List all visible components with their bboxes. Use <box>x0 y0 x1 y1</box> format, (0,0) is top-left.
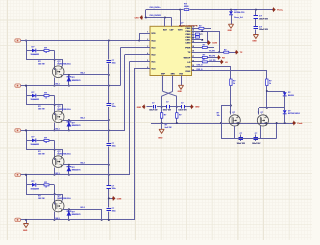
cell 4: wire to diode <box>26 184 32 186</box>
IC pin CIN1 <box>192 39 195 41</box>
zener diode D2 <box>68 75 70 86</box>
svg-text:100nF 50V: 100nF 50V <box>149 110 158 112</box>
cell 2: lower path wire <box>26 104 63 106</box>
svg-text:GND: GND <box>252 40 257 42</box>
cell 3: gate vertical wire <box>54 140 56 160</box>
svg-text:R?: R? <box>165 125 168 127</box>
IC pin BAT <box>164 23 166 26</box>
wire gate 2 down <box>258 108 260 115</box>
wire row 1 to pin VC5 corner <box>139 33 141 41</box>
svg-text:100 1W: 100 1W <box>38 109 45 111</box>
IC pin VC4 <box>147 40 150 42</box>
capacitor C (CIN2) <box>195 36 199 38</box>
wire CIN5 row <box>195 28 199 30</box>
svg-text:DSG: DSG <box>186 71 191 73</box>
cell 3: source node wire <box>63 164 109 166</box>
port B4+ (top left) <box>15 39 21 42</box>
cell 3: lower path wire <box>26 149 63 151</box>
wire stair row 5 to IC <box>134 69 136 220</box>
cell 1: drain drop wire <box>62 60 64 67</box>
svg-text:CIN3: CIN3 <box>185 34 191 36</box>
svg-text:LD_PD: LD_PD <box>210 60 217 62</box>
zener diode D8 <box>68 209 70 220</box>
diode D7 <box>32 183 36 187</box>
IC pin VSS <box>181 76 183 79</box>
port WKUP <box>218 55 221 60</box>
svg-text:RX_PD: RX_PD <box>209 56 216 58</box>
svg-text:C?: C? <box>166 102 169 104</box>
capacitor C (gate-source 2) <box>255 134 257 137</box>
IC pin VC1 <box>147 61 150 63</box>
resistor R (PWR) <box>202 46 207 48</box>
wire LD row <box>195 61 203 63</box>
wire stair row 3 to IC <box>124 55 126 131</box>
wire CHG feed <box>195 66 231 68</box>
IC pin PWR <box>192 47 195 49</box>
svg-text:1k: 1k <box>45 187 48 189</box>
capacitor C4 (bus filter) <box>107 185 111 187</box>
cell 2: gate vertical wire <box>54 96 56 116</box>
resistor R5 <box>44 139 49 141</box>
wire TX row <box>195 52 224 54</box>
cell 4: drain drop wire <box>62 194 64 201</box>
svg-text:CHG_G: CHG_G <box>197 65 204 67</box>
IC U1 BQ76 battery monitor <box>150 26 192 75</box>
IC pin CIN4 <box>192 31 195 33</box>
IC pin SRN <box>172 76 174 79</box>
wire CIN4 row <box>195 31 219 33</box>
cell 2: source node wire <box>63 120 109 122</box>
wire CIN1 row <box>195 39 202 41</box>
cell 3: wire resistor to gate line <box>49 140 55 142</box>
cell 4: source node drop to row 5 <box>101 209 103 220</box>
svg-text:100n: 100n <box>112 188 116 190</box>
wire FET2 leg to caps rail <box>260 126 262 139</box>
wire PWR row <box>195 47 203 49</box>
wire bottom network row <box>147 106 153 108</box>
port LD <box>221 59 224 64</box>
svg-text:1k: 1k <box>45 97 48 99</box>
svg-text:COM: COM <box>212 43 217 45</box>
cell 4: lower path wire <box>26 194 63 196</box>
svg-text:D?: D? <box>72 167 76 169</box>
zener diode D6 <box>68 165 70 175</box>
wire CHG corner down / gate 1 drive <box>230 66 232 79</box>
svg-text:GND: GND <box>158 138 163 140</box>
svg-text:100n: 100n <box>112 146 116 148</box>
cell 4: wire vertical from tap <box>26 175 28 194</box>
capacitor C (pack+ filter 2) <box>255 19 257 26</box>
svg-text:1k: 1k <box>269 83 271 85</box>
cell 2: wire vertical from tap <box>26 86 28 105</box>
IC pin V3P3 <box>180 23 182 26</box>
power ground GND (VSS) <box>178 85 183 89</box>
wire V3P3 pin drop <box>180 10 182 24</box>
svg-text:100 1W: 100 1W <box>38 153 45 155</box>
IC pin VC5 <box>147 33 150 35</box>
svg-text:R?: R? <box>38 151 41 153</box>
port PACK+ <box>273 7 276 12</box>
cell 1: source node wire <box>63 74 109 76</box>
port COM (right of IC) <box>208 40 211 46</box>
wire BAT pin drop <box>164 18 166 24</box>
capacitor C3 (bus filter) <box>107 143 111 145</box>
port TX <box>236 50 239 55</box>
cell 1: gate vertical wire <box>54 51 56 71</box>
wire CIN4 drop to TX row <box>219 31 221 52</box>
resistor R3 <box>44 95 49 97</box>
svg-text:100n: 100n <box>112 63 116 65</box>
svg-text:BQ7PL536APAPR: BQ7PL536APAPR <box>179 24 198 27</box>
wire sense left vertical <box>161 96 163 123</box>
svg-text:CIN1: CIN1 <box>185 40 191 42</box>
svg-text:0R05: 0R05 <box>184 6 189 8</box>
mosfet Q1 <box>52 66 64 78</box>
wire CIN0 row <box>195 42 208 44</box>
svg-text:V3P3: V3P3 <box>178 30 183 32</box>
svg-text:R?: R? <box>179 114 182 116</box>
resistor R7 <box>44 184 49 186</box>
wire diode loop top <box>267 91 285 93</box>
capacitor C5 (bus filter) <box>107 208 111 210</box>
wire ground stub row 5 <box>26 220 28 224</box>
resistor R (gate 1) <box>230 79 232 86</box>
cell 3: source wire to next tap <box>54 167 56 175</box>
wire top rail PACK+ <box>146 9 183 11</box>
diode D5 <box>32 139 36 143</box>
wire stair row 4 to IC <box>129 62 131 175</box>
wire gate network left vertical <box>221 106 223 139</box>
svg-text:SRN: SRN <box>171 73 176 75</box>
cell 4: source node wire <box>63 209 102 211</box>
wire CIN0 vertical <box>207 31 209 43</box>
svg-text:1N4448W: 1N4448W <box>31 187 40 190</box>
wire row 2 <box>21 85 121 87</box>
wire gate 1 tap to left <box>221 105 231 107</box>
port Pack- <box>293 120 296 125</box>
svg-text:GND: GND <box>228 30 233 32</box>
svg-text:R?: R? <box>38 106 41 108</box>
resistor R (CIN5) <box>199 27 204 29</box>
cell 4: source wire to next tap <box>54 212 56 220</box>
IC pin CIN0 <box>192 42 195 44</box>
svg-text:WKUP: WKUP <box>184 57 191 59</box>
svg-text:DSG_G: DSG_G <box>197 69 204 71</box>
svg-text:Q?: Q? <box>232 112 235 114</box>
svg-text:Q?: Q? <box>58 106 62 108</box>
capacitor C1 (bus filter) <box>107 60 111 62</box>
IC pin TX <box>192 52 195 54</box>
wire stub to COM port <box>109 198 113 200</box>
svg-text:CIN0: CIN0 <box>185 43 191 45</box>
mosfet Q6 (charge) <box>257 115 268 126</box>
IC pin VC2 <box>147 54 150 56</box>
svg-text:100n: 100n <box>112 211 116 213</box>
resistor R (gate 2) <box>266 71 268 79</box>
svg-text:CIN2: CIN2 <box>185 37 191 39</box>
IC pin CAP <box>171 23 173 26</box>
mosfet Q4 <box>52 200 64 212</box>
wire row 4 <box>21 174 130 176</box>
svg-text:GND: GND <box>178 91 183 93</box>
IC pin CIN2 <box>192 37 195 39</box>
wire sense bus vertical <box>108 41 110 60</box>
capacitor C (sense mid) <box>166 105 168 109</box>
svg-text:CIN5: CIN5 <box>185 28 191 30</box>
cell 2: drain drop wire <box>62 105 64 112</box>
capacitor C (gate-source 1) <box>240 134 242 137</box>
wire sense right vertical <box>176 96 178 123</box>
cell 2: wire to diode <box>26 95 32 97</box>
svg-text:100 1W: 100 1W <box>38 198 45 200</box>
wire WKUP row <box>195 57 203 59</box>
svg-text:MM3Z9V1: MM3Z9V1 <box>72 170 81 172</box>
resistor R (WKUP) <box>202 56 207 58</box>
wire CAP pin drop <box>171 18 173 24</box>
diode D top (to GND) <box>231 10 233 12</box>
wire SRP drop <box>162 79 164 92</box>
wire stub IC pin VC5 <box>139 33 150 35</box>
cell 2: source wire to next tap <box>54 123 56 131</box>
resistor R (TX) <box>224 51 229 53</box>
wire row 3 <box>21 130 125 132</box>
wire BAT/CAP feed <box>144 17 171 19</box>
capacitor C2 (bus filter) <box>107 103 111 105</box>
svg-text:MM3Z9V1: MM3Z9V1 <box>72 214 81 216</box>
wire caps rail <box>221 138 277 140</box>
cell 4: gate vertical wire <box>54 185 56 205</box>
svg-text:CHG: CHG <box>185 66 190 68</box>
resistor R1 <box>44 50 49 52</box>
svg-text:GND: GND <box>195 107 200 109</box>
port COM <box>113 196 116 201</box>
wire SRN drop <box>172 79 174 92</box>
wire VSS to ground <box>181 79 183 86</box>
svg-text:100nF 50V: 100nF 50V <box>252 143 261 145</box>
wire SRP crossover <box>163 91 177 96</box>
svg-text:BZX84-C10: BZX84-C10 <box>234 11 244 14</box>
svg-text:Pack+: Pack+ <box>277 10 284 12</box>
zener diode D4 <box>68 120 70 130</box>
svg-text:COM: COM <box>117 198 122 200</box>
cell 3: wire vertical from tap <box>26 130 28 149</box>
svg-text:C?: C? <box>112 103 115 105</box>
svg-text:100nF 50V: 100nF 50V <box>178 110 187 112</box>
wire gate 1 drop <box>230 86 232 115</box>
svg-text:1k: 1k <box>45 142 48 144</box>
svg-text:GND: GND <box>137 107 142 109</box>
mosfet Q3 <box>52 156 64 168</box>
svg-text:CHG: CHG <box>135 18 140 20</box>
svg-text:TX: TX <box>240 52 243 54</box>
svg-text:100nF 50V: 100nF 50V <box>259 29 269 31</box>
cell 1: source wire to next tap <box>54 77 56 85</box>
svg-text:Pack-: Pack- <box>297 123 303 125</box>
power ground GND (bottom left) <box>23 224 28 228</box>
wire caps rail riser <box>276 123 278 139</box>
svg-text:D?: D? <box>288 110 291 112</box>
mosfet Q2 <box>52 111 64 123</box>
capacitor C (pack+ filter 1) <box>255 10 257 16</box>
svg-text:100n: 100n <box>112 106 116 108</box>
mosfet Q5 (discharge) <box>229 115 240 126</box>
cell 3: wire diode to resistor <box>36 140 44 142</box>
capacitor C (CIN3) <box>195 33 199 35</box>
svg-text:PWR: PWR <box>185 47 191 49</box>
svg-text:C?: C? <box>200 34 202 36</box>
resistor R (LD) <box>202 61 207 63</box>
power ground GND (sense rail) <box>161 123 163 129</box>
svg-text:1N4448W: 1N4448W <box>31 98 40 101</box>
IC pin CHG <box>192 66 195 68</box>
resistor R top inline <box>184 9 189 11</box>
svg-text:100nF 50V: 100nF 50V <box>259 18 269 20</box>
cell 4: wire diode to resistor <box>36 184 44 186</box>
IC pin SRP <box>162 76 164 79</box>
wire top rail corner to CHG wire <box>145 10 147 18</box>
port cell tap 1 <box>15 218 21 221</box>
diode D1 <box>32 49 36 53</box>
IC pin CIN3 <box>192 34 195 36</box>
svg-text:100nF 50V: 100nF 50V <box>163 110 172 112</box>
IC pin DSG <box>192 70 195 72</box>
resistor R (sense left) <box>160 113 162 119</box>
wire SRN crossover <box>162 91 173 96</box>
svg-text:1N4448W: 1N4448W <box>31 53 40 56</box>
wire sense rail / source rail to Pack- <box>151 123 294 125</box>
svg-text:CHG_PACKR: CHG_PACKR <box>150 14 162 17</box>
wire row 5 <box>21 219 135 221</box>
cell 1: wire diode to resistor <box>36 50 44 52</box>
diode D (gate bypass) <box>284 91 286 92</box>
port cell tap 4 <box>15 84 21 87</box>
IC pin WKUP <box>192 57 195 59</box>
svg-text:C?: C? <box>259 26 263 28</box>
svg-text:100nF 50V: 100nF 50V <box>237 143 246 145</box>
diode D3 <box>32 94 36 98</box>
svg-text:MM3Z9V1: MM3Z9V1 <box>72 125 81 127</box>
svg-text:GND: GND <box>23 230 28 232</box>
capacitor C (sense right) <box>181 105 183 109</box>
port cell tap 3 <box>15 129 21 132</box>
wire FET1 leg to caps rail <box>234 126 236 139</box>
capacitor C (sense left) <box>153 105 155 109</box>
svg-text:10k: 10k <box>217 115 220 117</box>
IC pin VC3 <box>147 47 150 49</box>
resistor R (sense right) <box>176 113 178 119</box>
cell 1: wire to diode <box>26 50 32 52</box>
zener diode D (gate protect) <box>284 108 286 110</box>
svg-text:RX: RX <box>222 57 225 59</box>
cell 2: wire diode to resistor <box>36 95 44 97</box>
wire row 1 (net VC5) <box>21 40 150 42</box>
wire stair row 2 to IC <box>120 48 122 86</box>
cell 1: wire vertical from tap <box>26 41 28 60</box>
svg-text:Q?: Q? <box>58 151 62 153</box>
wire gate 2 bus <box>259 107 285 109</box>
svg-text:LD: LD <box>187 62 190 64</box>
cell 4: wire resistor to gate line <box>49 184 55 186</box>
wire gate 2 drop <box>266 86 268 108</box>
cell 1: lower path wire <box>26 59 63 61</box>
cell 1: wire resistor to gate line <box>49 50 55 52</box>
svg-text:1k: 1k <box>45 52 48 54</box>
power ground GND (pack+ filter) <box>253 35 258 39</box>
IC pin CIN5 <box>192 28 195 30</box>
svg-text:100 1W: 100 1W <box>38 64 45 66</box>
cell 2: wire resistor to gate line <box>49 95 55 97</box>
svg-text:BZT52C-B9V1: BZT52C-B9V1 <box>288 113 300 115</box>
power ground GND (top diode) <box>228 24 233 28</box>
svg-text:1N4448W: 1N4448W <box>31 143 40 146</box>
svg-text:MM3Z9V1: MM3Z9V1 <box>72 80 81 82</box>
wire cap to ground <box>255 30 257 35</box>
IC pin VC0 <box>147 68 150 70</box>
port GND (right, bottom network) <box>191 104 194 109</box>
svg-text:0m5 1W: 0m5 1W <box>165 127 172 129</box>
svg-text:TX_PD: TX_PD <box>209 50 215 52</box>
cell 3: wire to diode <box>26 140 32 142</box>
svg-text:1k: 1k <box>233 83 235 85</box>
wire DSG feed <box>195 70 267 72</box>
cell 3: drain drop wire <box>62 150 64 157</box>
port cell tap 2 <box>15 173 21 176</box>
IC pin LD <box>192 61 195 63</box>
